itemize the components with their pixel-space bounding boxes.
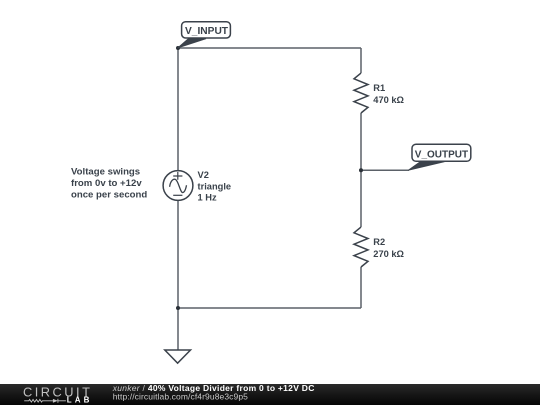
svg-text:from 0v to +12v: from 0v to +12v [71, 178, 142, 189]
V_INPUT flag box [182, 22, 231, 38]
svg-text:1 Hz: 1 Hz [198, 193, 217, 203]
annotation note text [71, 167, 147, 201]
svg-text:LAB: LAB [67, 396, 93, 405]
voltage source V2 [163, 171, 193, 201]
V2 minus terminal mark [173, 194, 182, 196]
svg-text:once per second: once per second [71, 189, 147, 200]
wire R2 bottom lead [360, 267, 362, 308]
label V2 designator and value [198, 170, 232, 203]
svg-text:triangle: triangle [198, 181, 232, 191]
V_OUTPUT flag pointer [409, 162, 445, 171]
wire R1 bottom to R2 top [360, 113, 362, 227]
svg-text:V2: V2 [198, 170, 209, 180]
svg-text:470 kΩ: 470 kΩ [373, 95, 404, 105]
wire bottom horizontal [178, 307, 361, 309]
wire left vertical top to V2 [177, 48, 179, 171]
svg-text:R1: R1 [373, 83, 385, 93]
node dot V_INPUT corner [176, 46, 180, 50]
svg-text:http://circuitlab.com/cf4r9u8e: http://circuitlab.com/cf4r9u8e3c9p5 [113, 392, 248, 402]
V_INPUT flag pointer [178, 39, 206, 48]
resistor R1 [354, 73, 368, 113]
logo resistor+diode line [24, 399, 66, 403]
node flag V_OUTPUT [409, 144, 471, 170]
node dot ground junction [176, 306, 180, 310]
V2 plus terminal mark [173, 172, 182, 180]
resistor R2 [354, 227, 368, 267]
logo diode triangle [53, 399, 58, 403]
svg-text:R2: R2 [373, 237, 385, 247]
wire ground lead [177, 308, 179, 350]
V_OUTPUT flag box [412, 144, 471, 161]
svg-text:V_INPUT: V_INPUT [185, 26, 229, 37]
svg-text:V_OUTPUT: V_OUTPUT [415, 149, 468, 160]
node dot V_OUTPUT junction [359, 168, 363, 172]
label R2 designator and value [373, 237, 404, 259]
svg-text:Voltage swings: Voltage swings [71, 167, 140, 178]
ground [165, 350, 191, 363]
wire V_OUTPUT stub [361, 169, 409, 171]
svg-text:270 kΩ: 270 kΩ [373, 249, 404, 259]
wire top horizontal V_INPUT to R1 branch [178, 47, 361, 49]
V2 waveform symbol [170, 179, 187, 192]
wire V2 bottom to ground node [177, 200, 179, 308]
V2 circle body [163, 171, 193, 201]
wire R1 top lead [360, 48, 362, 73]
label R1 designator and value [373, 83, 404, 105]
node flag V_INPUT [178, 22, 230, 48]
